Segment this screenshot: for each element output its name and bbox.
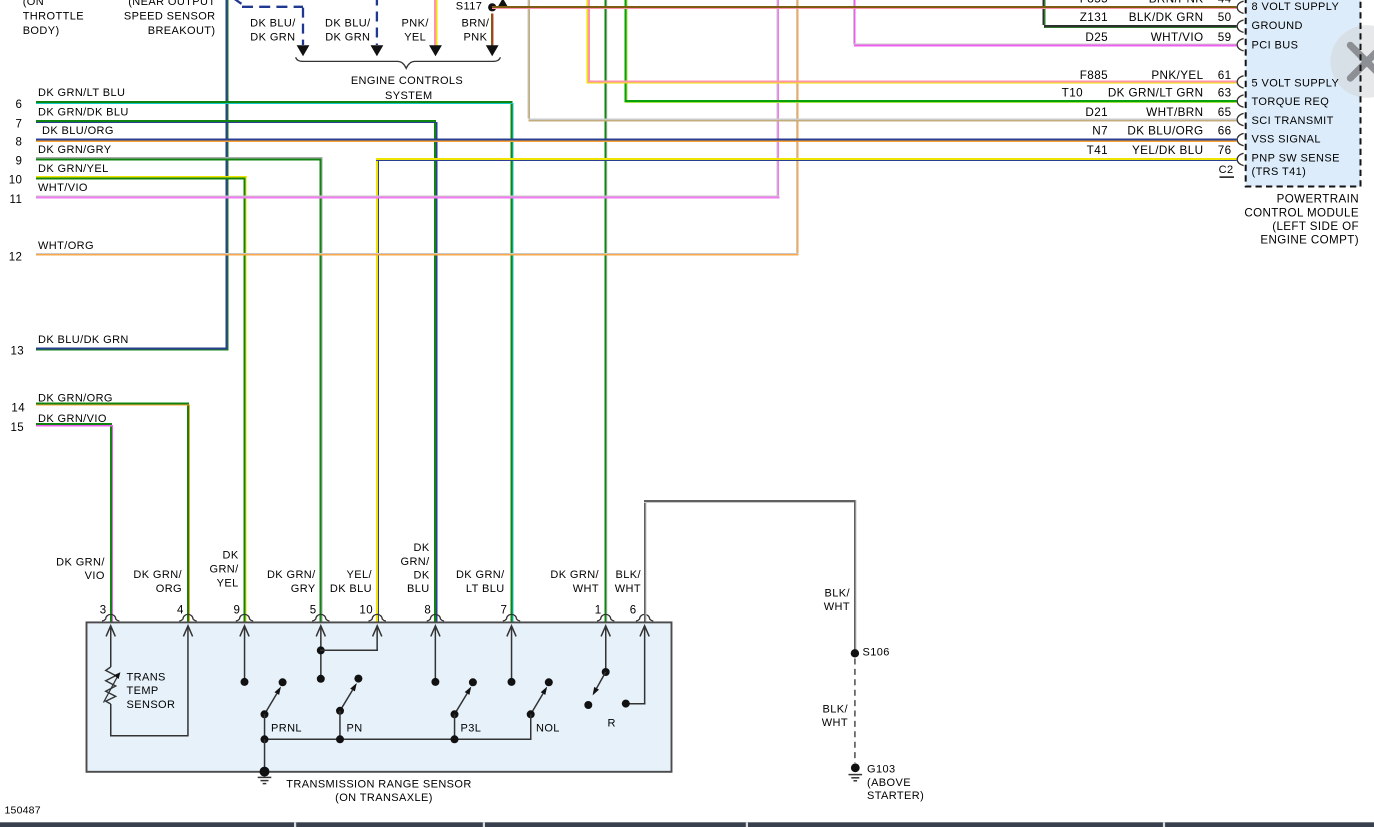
label column DK GRN/ VIO xyxy=(56,556,105,582)
label column BLK/ WHT xyxy=(615,569,642,595)
svg-text:DK: DK xyxy=(414,570,430,582)
label DK BLU/DK GRN #1 xyxy=(250,17,296,43)
svg-text:(LEFT SIDE OF: (LEFT SIDE OF xyxy=(1272,220,1359,233)
svg-text:76: 76 xyxy=(1218,144,1232,157)
wire S117 BRN/PNK to pin44 xyxy=(492,6,1237,9)
svg-text:YEL: YEL xyxy=(404,32,426,44)
wire row10 riser to pin9 xyxy=(243,176,246,623)
label column DK GRN/ WHT xyxy=(550,569,599,595)
sensor pin 7 bracket xyxy=(503,614,520,621)
svg-text:3: 3 xyxy=(100,605,107,617)
pin 66 label N7 DK BLU/ORG xyxy=(1092,125,1231,138)
label column DK GRN/ YEL xyxy=(209,550,239,590)
PCM module box xyxy=(1246,0,1361,187)
wire D25 WHT/VIO xyxy=(854,44,1237,47)
connector C2 label xyxy=(1219,164,1234,178)
sensor pin lead x=605.7 xyxy=(601,626,610,669)
svg-text:P3L: P3L xyxy=(461,723,482,735)
svg-text:PN: PN xyxy=(347,722,363,734)
ground sensor case xyxy=(258,767,272,784)
node pin5 jumper dot xyxy=(317,646,325,654)
node pin9 contact xyxy=(241,678,249,686)
label row14 xyxy=(11,392,113,414)
svg-text:DK BLU/ORG: DK BLU/ORG xyxy=(42,125,114,137)
switch R xyxy=(584,668,609,709)
svg-text:ENGINE CONTROLS: ENGINE CONTROLS xyxy=(351,75,463,87)
svg-text:N7: N7 xyxy=(1092,125,1108,138)
svg-text:DK BLU/: DK BLU/ xyxy=(325,17,371,29)
wire T41 YEL/DK BLU xyxy=(376,158,1236,161)
svg-text:DK BLU: DK BLU xyxy=(330,583,372,595)
svg-text:ORG: ORG xyxy=(156,583,182,595)
svg-text:DK GRN/: DK GRN/ xyxy=(267,569,316,581)
label row6 xyxy=(16,87,126,111)
label DK BLU/DK GRN #2 xyxy=(325,17,371,43)
svg-text:11: 11 xyxy=(10,194,23,206)
sensor pin 8 bracket xyxy=(427,614,444,621)
svg-text:DK GRN: DK GRN xyxy=(325,32,370,44)
svg-text:PCI BUS: PCI BUS xyxy=(1252,40,1299,52)
svg-text:9: 9 xyxy=(16,156,23,168)
wire row7 DK GRN/DK BLU xyxy=(36,120,437,123)
node pin5 contact xyxy=(317,675,325,683)
svg-text:S117: S117 xyxy=(456,0,482,12)
wire Z131 riser BLK/DK GRN xyxy=(1043,0,1046,27)
sensor pin 9 bracket xyxy=(236,614,253,621)
svg-text:YEL: YEL xyxy=(217,577,239,589)
svg-text:7: 7 xyxy=(16,118,23,130)
pin 65 label D21 WHT/BRN xyxy=(1085,106,1231,119)
label column DK GRN/ LT BLU xyxy=(456,569,505,595)
svg-text:DK GRN/: DK GRN/ xyxy=(56,556,105,568)
svg-text:(TRS T41): (TRS T41) xyxy=(1252,166,1307,178)
svg-text:WHT/VIO: WHT/VIO xyxy=(1151,31,1204,44)
svg-text:15: 15 xyxy=(11,422,25,434)
sensor pin lead x=188.0 xyxy=(183,626,192,736)
svg-text:150487: 150487 xyxy=(5,804,41,816)
svg-text:13: 13 xyxy=(11,345,25,357)
svg-text:YEL/DK BLU: YEL/DK BLU xyxy=(1132,144,1204,157)
svg-text:DK: DK xyxy=(223,550,239,562)
sensor pin lead x=435.4 xyxy=(431,626,440,678)
svg-text:DK GRN/DK BLU: DK GRN/DK BLU xyxy=(38,106,129,118)
svg-text:LT BLU: LT BLU xyxy=(466,583,505,595)
node pin7 contact xyxy=(508,678,516,686)
sensor pin lead x=320.8 xyxy=(316,626,325,675)
label POWERTRAIN CONTROL MODULE xyxy=(1244,193,1359,247)
svg-text:PNK: PNK xyxy=(463,32,487,44)
svg-text:4: 4 xyxy=(177,605,184,617)
svg-text:50: 50 xyxy=(1218,11,1232,24)
svg-text:C2: C2 xyxy=(1219,164,1234,176)
sensor pin 5 number xyxy=(310,605,317,617)
sensor pin lead x=377.2 xyxy=(373,626,382,650)
svg-text:10: 10 xyxy=(359,605,373,617)
resistor trans temp sensor xyxy=(104,667,121,704)
sensor pin 10 bracket xyxy=(369,614,386,621)
wire row13 DK BLU/DK GRN xyxy=(36,347,228,350)
svg-text:WHT/ORG: WHT/ORG xyxy=(38,240,94,252)
svg-text:GRY: GRY xyxy=(291,583,316,595)
wire row14 DK GRN/ORG xyxy=(36,402,190,405)
bottom bar xyxy=(0,822,1374,827)
svg-text:6: 6 xyxy=(630,605,637,617)
svg-text:8: 8 xyxy=(16,137,23,149)
switch NOL xyxy=(527,678,553,739)
svg-text:BLK/: BLK/ xyxy=(616,569,642,581)
node pin8 contact xyxy=(431,678,439,686)
label PRNL xyxy=(271,723,302,735)
svg-text:BLK/: BLK/ xyxy=(825,587,851,599)
sensor pin 1 number xyxy=(595,605,602,617)
svg-text:6: 6 xyxy=(16,99,23,111)
label TRANSMISSION RANGE SENSOR xyxy=(286,778,471,804)
wire D21 riser WHT/BRN xyxy=(527,0,530,120)
node S117 xyxy=(456,0,497,12)
svg-text:BLK/DK GRN: BLK/DK GRN xyxy=(1129,11,1204,24)
svg-text:VSS SIGNAL: VSS SIGNAL xyxy=(1252,134,1321,146)
svg-text:SCI TRANSMIT: SCI TRANSMIT xyxy=(1252,115,1334,127)
svg-text:66: 66 xyxy=(1218,125,1232,138)
svg-text:DK GRN/ORG: DK GRN/ORG xyxy=(38,392,113,404)
svg-text:TEMP: TEMP xyxy=(127,685,159,697)
close button xyxy=(1331,25,1374,98)
svg-text:65: 65 xyxy=(1218,106,1232,119)
svg-text:DK GRN/: DK GRN/ xyxy=(550,569,599,581)
svg-text:7: 7 xyxy=(501,605,508,617)
svg-text:YEL/: YEL/ xyxy=(347,569,373,581)
svg-text:PRNL: PRNL xyxy=(271,723,302,735)
sensor pin 9 number xyxy=(234,605,241,617)
sensor pin 4 bracket xyxy=(179,614,196,621)
wire row6 riser to pin7 xyxy=(510,101,513,623)
wire row15 DK GRN/VIO xyxy=(36,423,113,426)
wire row9 riser to pin5 xyxy=(320,157,323,623)
label NOL xyxy=(536,723,560,735)
wire resistor to pin4 xyxy=(110,704,189,737)
svg-text:SPEED SENSOR: SPEED SENSOR xyxy=(124,11,216,23)
wire row12 WHT/ORG xyxy=(36,253,798,256)
sensor pin lead x=644.6 xyxy=(640,626,649,704)
svg-text:DK GRN/LT GRN: DK GRN/LT GRN xyxy=(1108,87,1204,100)
svg-text:T41: T41 xyxy=(1087,144,1108,157)
svg-text:8 VOLT SUPPLY: 8 VOLT SUPPLY xyxy=(1252,1,1340,13)
svg-text:TRANSMISSION RANGE SENSOR: TRANSMISSION RANGE SENSOR xyxy=(286,778,471,790)
pin 76 connector bracket xyxy=(1237,153,1243,165)
sensor pin 6 bracket xyxy=(636,614,653,621)
svg-text:BREAKOUT): BREAKOUT) xyxy=(148,25,216,37)
svg-text:DK GRN/: DK GRN/ xyxy=(456,569,505,581)
switch P3L xyxy=(451,678,477,739)
svg-text:DK GRN/YEL: DK GRN/YEL xyxy=(38,163,109,175)
sensor pin 4 number xyxy=(177,605,184,617)
pin 76 label T41 YEL/DK BLU xyxy=(1087,144,1232,157)
svg-text:(ON: (ON xyxy=(23,0,44,8)
svg-text:GROUND: GROUND xyxy=(1252,20,1303,32)
sensor pin 3 bracket xyxy=(102,614,119,621)
sensor pin 7 number xyxy=(501,605,508,617)
svg-text:WHT: WHT xyxy=(573,583,599,595)
PCM box dashed border xyxy=(1246,0,1361,187)
label row9 xyxy=(16,144,112,168)
label BLK/WHT ground leg xyxy=(822,703,849,729)
svg-text:G103: G103 xyxy=(867,763,896,775)
wire rail to ground xyxy=(264,739,266,769)
wire BRN/PNK arrow down xyxy=(486,14,499,57)
label row12 xyxy=(9,240,94,263)
svg-text:PNK/YEL: PNK/YEL xyxy=(1151,69,1203,82)
wire common rail xyxy=(261,735,532,743)
wire row10 DK GRN/YEL xyxy=(36,176,247,179)
pin 61 label F885 PNK/YEL xyxy=(1080,69,1232,82)
wire BLK/WHT pin6 to S106 xyxy=(644,500,857,649)
label row10 xyxy=(9,163,109,187)
label R xyxy=(608,718,616,730)
svg-text:Z131: Z131 xyxy=(1080,11,1108,24)
sensor pin 6 number xyxy=(630,605,637,617)
svg-text:BLK/: BLK/ xyxy=(823,703,849,715)
svg-text:DK: DK xyxy=(414,542,430,554)
svg-text:WHT: WHT xyxy=(615,583,641,595)
label column DK GRN/ ORG xyxy=(133,569,182,595)
svg-text:S106: S106 xyxy=(863,646,890,658)
wire jumper pin5 to pin10 xyxy=(320,650,378,652)
svg-text:GRN/: GRN/ xyxy=(209,564,239,576)
pin 66 connector bracket xyxy=(1237,133,1243,145)
label row15 xyxy=(11,413,107,434)
wire T41 riser to pin10 xyxy=(376,158,379,623)
label ENGINE CONTROLS SYSTEM xyxy=(351,75,463,102)
wire pin1 DK GRN/WHT xyxy=(605,0,608,623)
label P3L xyxy=(461,723,482,735)
svg-text:9: 9 xyxy=(234,605,241,617)
svg-text:NOL: NOL xyxy=(536,723,560,735)
svg-text:DK GRN/GRY: DK GRN/GRY xyxy=(38,144,112,156)
brace engine controls system xyxy=(296,57,501,68)
wire dashed DK BLU/DK GRN #2 xyxy=(371,0,384,56)
label row7 xyxy=(16,106,129,130)
svg-text:R: R xyxy=(608,718,616,730)
svg-text:(NEAR OUTPUT: (NEAR OUTPUT xyxy=(128,0,215,8)
pin 59 label D25 WHT/VIO xyxy=(1085,31,1231,44)
wire row11 WHT/VIO xyxy=(36,196,779,199)
svg-text:63: 63 xyxy=(1218,87,1232,100)
svg-text:VIO: VIO xyxy=(85,570,105,582)
ground G103 xyxy=(849,763,863,780)
pin 63 label T10 DK GRN/LT GRN xyxy=(1062,87,1232,100)
sensor pin lead x=110.7 xyxy=(106,626,115,667)
label TRANS TEMP SENSOR xyxy=(127,671,176,711)
svg-text:ENGINE COMPT): ENGINE COMPT) xyxy=(1260,234,1359,247)
svg-text:BLU: BLU xyxy=(407,583,430,595)
svg-text:44: 44 xyxy=(1218,0,1232,5)
label PNK/YEL xyxy=(402,17,430,43)
label row8 xyxy=(16,125,114,149)
svg-text:(ABOVE: (ABOVE xyxy=(867,777,911,789)
svg-text:DK BLU/DK GRN: DK BLU/DK GRN xyxy=(38,334,129,346)
sensor pin lead x=244.5 xyxy=(240,626,249,678)
svg-text:DK BLU/ORG: DK BLU/ORG xyxy=(1127,125,1203,138)
wire BRN/PNK arrow up xyxy=(497,0,508,8)
wire F885 riser PNK/YEL xyxy=(587,0,590,84)
pin 63 connector bracket xyxy=(1237,95,1243,107)
wire row11 riser WHT/VIO xyxy=(776,0,779,197)
svg-text:D21: D21 xyxy=(1085,106,1108,119)
label column DK GRN/ GRY xyxy=(267,569,316,595)
svg-text:WHT: WHT xyxy=(822,717,848,729)
wire row9 DK GRN/GRY xyxy=(36,157,322,160)
svg-text:STARTER): STARTER) xyxy=(867,790,924,802)
pin 59 connector bracket xyxy=(1237,39,1243,51)
label PN xyxy=(347,722,363,734)
wire dashed BLK/WHT S106 to G103 xyxy=(854,659,856,764)
svg-text:GRN/: GRN/ xyxy=(400,556,430,568)
wire row12 riser WHT/ORG xyxy=(796,0,799,254)
wire T10 DK GRN/LT GRN xyxy=(624,100,1236,103)
pin 50 label Z131 BLK/DK GRN xyxy=(1080,11,1232,24)
svg-text:DK GRN: DK GRN xyxy=(250,32,295,44)
node S106 xyxy=(851,646,890,658)
svg-text:14: 14 xyxy=(11,403,25,415)
svg-text:8: 8 xyxy=(424,605,431,617)
svg-text:12: 12 xyxy=(9,251,23,263)
wire row15 riser to pin3 xyxy=(110,423,113,623)
svg-text:BRN/PNK: BRN/PNK xyxy=(1149,0,1204,5)
svg-text:DK GRN/VIO: DK GRN/VIO xyxy=(38,413,107,425)
sensor pin 5 bracket xyxy=(312,614,329,621)
svg-text:T10: T10 xyxy=(1062,87,1083,100)
wire D25 riser WHT/VIO xyxy=(853,0,856,45)
sensor pin 8 number xyxy=(424,605,431,617)
svg-text:WHT/VIO: WHT/VIO xyxy=(38,182,88,194)
wire Z131 BLK/DK GRN xyxy=(1044,25,1237,28)
svg-text:59: 59 xyxy=(1218,31,1232,44)
switch PRNL xyxy=(261,678,287,739)
svg-text:BRN/: BRN/ xyxy=(461,17,489,29)
sensor pin 3 number xyxy=(100,605,107,617)
label BRN/PNK xyxy=(461,17,489,43)
label column DK GRN/ DK BLU xyxy=(400,542,430,595)
wire T10 riser DK GRN/LT GRN xyxy=(624,0,627,102)
wire D21 WHT/BRN xyxy=(529,119,1237,122)
wire dashed DK BLU/DK GRN #1 xyxy=(233,0,310,56)
svg-text:PNK/: PNK/ xyxy=(402,17,430,29)
svg-text:61: 61 xyxy=(1218,69,1232,82)
svg-text:F885: F885 xyxy=(1080,69,1108,82)
svg-text:5: 5 xyxy=(310,605,317,617)
wire row6 DK GRN/LT BLU xyxy=(36,101,514,104)
label column YEL/ DK BLU xyxy=(330,569,373,595)
wire F885 PNK/YEL xyxy=(587,80,1237,83)
svg-text:(ON TRANSAXLE): (ON TRANSAXLE) xyxy=(335,792,433,804)
svg-text:POWERTRAIN: POWERTRAIN xyxy=(1277,193,1359,206)
svg-text:BODY): BODY) xyxy=(23,25,60,37)
wire row14 riser to pin4 xyxy=(187,402,190,623)
sensor pin 1 bracket xyxy=(597,614,614,621)
svg-text:CONTROL MODULE: CONTROL MODULE xyxy=(1244,206,1359,219)
label (ON THROTTLE BODY) xyxy=(23,0,84,37)
svg-text:1: 1 xyxy=(595,605,602,617)
svg-text:DK GRN/LT BLU: DK GRN/LT BLU xyxy=(38,87,125,99)
wire row13 riser DK BLU/DK GRN xyxy=(225,0,228,349)
wire row8 N7 DK BLU/ORG xyxy=(36,139,1237,142)
sensor pin lead x=511.5 xyxy=(507,626,516,678)
switch PN xyxy=(336,675,362,740)
wire pin6 lead to R contact xyxy=(622,700,646,708)
sensor pin 10 number xyxy=(359,605,373,617)
label BLK/WHT splice xyxy=(824,587,851,613)
label 150487 xyxy=(5,804,41,816)
svg-text:WHT: WHT xyxy=(824,601,850,613)
PCM pin function labels xyxy=(1252,1,1340,178)
label row13 xyxy=(11,334,129,357)
svg-text:TRANS: TRANS xyxy=(127,671,166,683)
svg-text:DK BLU/: DK BLU/ xyxy=(250,17,296,29)
pin 65 connector bracket xyxy=(1237,113,1243,125)
svg-text:TORQUE REQ: TORQUE REQ xyxy=(1252,96,1330,108)
svg-text:PNP SW SENSE: PNP SW SENSE xyxy=(1252,153,1340,165)
svg-text:D25: D25 xyxy=(1085,31,1108,44)
label row11 xyxy=(10,182,88,206)
transmission range sensor box xyxy=(87,622,672,771)
wire row7 riser to pin8 xyxy=(434,120,437,623)
svg-text:SYSTEM: SYSTEM xyxy=(385,90,433,102)
svg-text:10: 10 xyxy=(9,175,23,187)
pin 44 label F855 BRN/PNK xyxy=(1080,0,1232,5)
pin 50 connector bracket xyxy=(1237,20,1243,32)
svg-text:SENSOR: SENSOR xyxy=(127,699,176,711)
svg-text:WHT/BRN: WHT/BRN xyxy=(1146,106,1203,119)
label G103 xyxy=(867,763,924,802)
pin 44 connector bracket xyxy=(1237,1,1243,13)
pin 61 connector bracket xyxy=(1237,76,1243,88)
svg-text:THROTTLE: THROTTLE xyxy=(23,11,84,23)
wire PNK/YEL arrow xyxy=(429,0,442,56)
svg-text:DK GRN/: DK GRN/ xyxy=(133,569,182,581)
label (NEAR OUTPUT SPEED SENSOR BREAKOUT) xyxy=(124,0,216,37)
svg-text:5 VOLT SUPPLY: 5 VOLT SUPPLY xyxy=(1252,78,1340,90)
svg-text:F855: F855 xyxy=(1080,0,1108,5)
